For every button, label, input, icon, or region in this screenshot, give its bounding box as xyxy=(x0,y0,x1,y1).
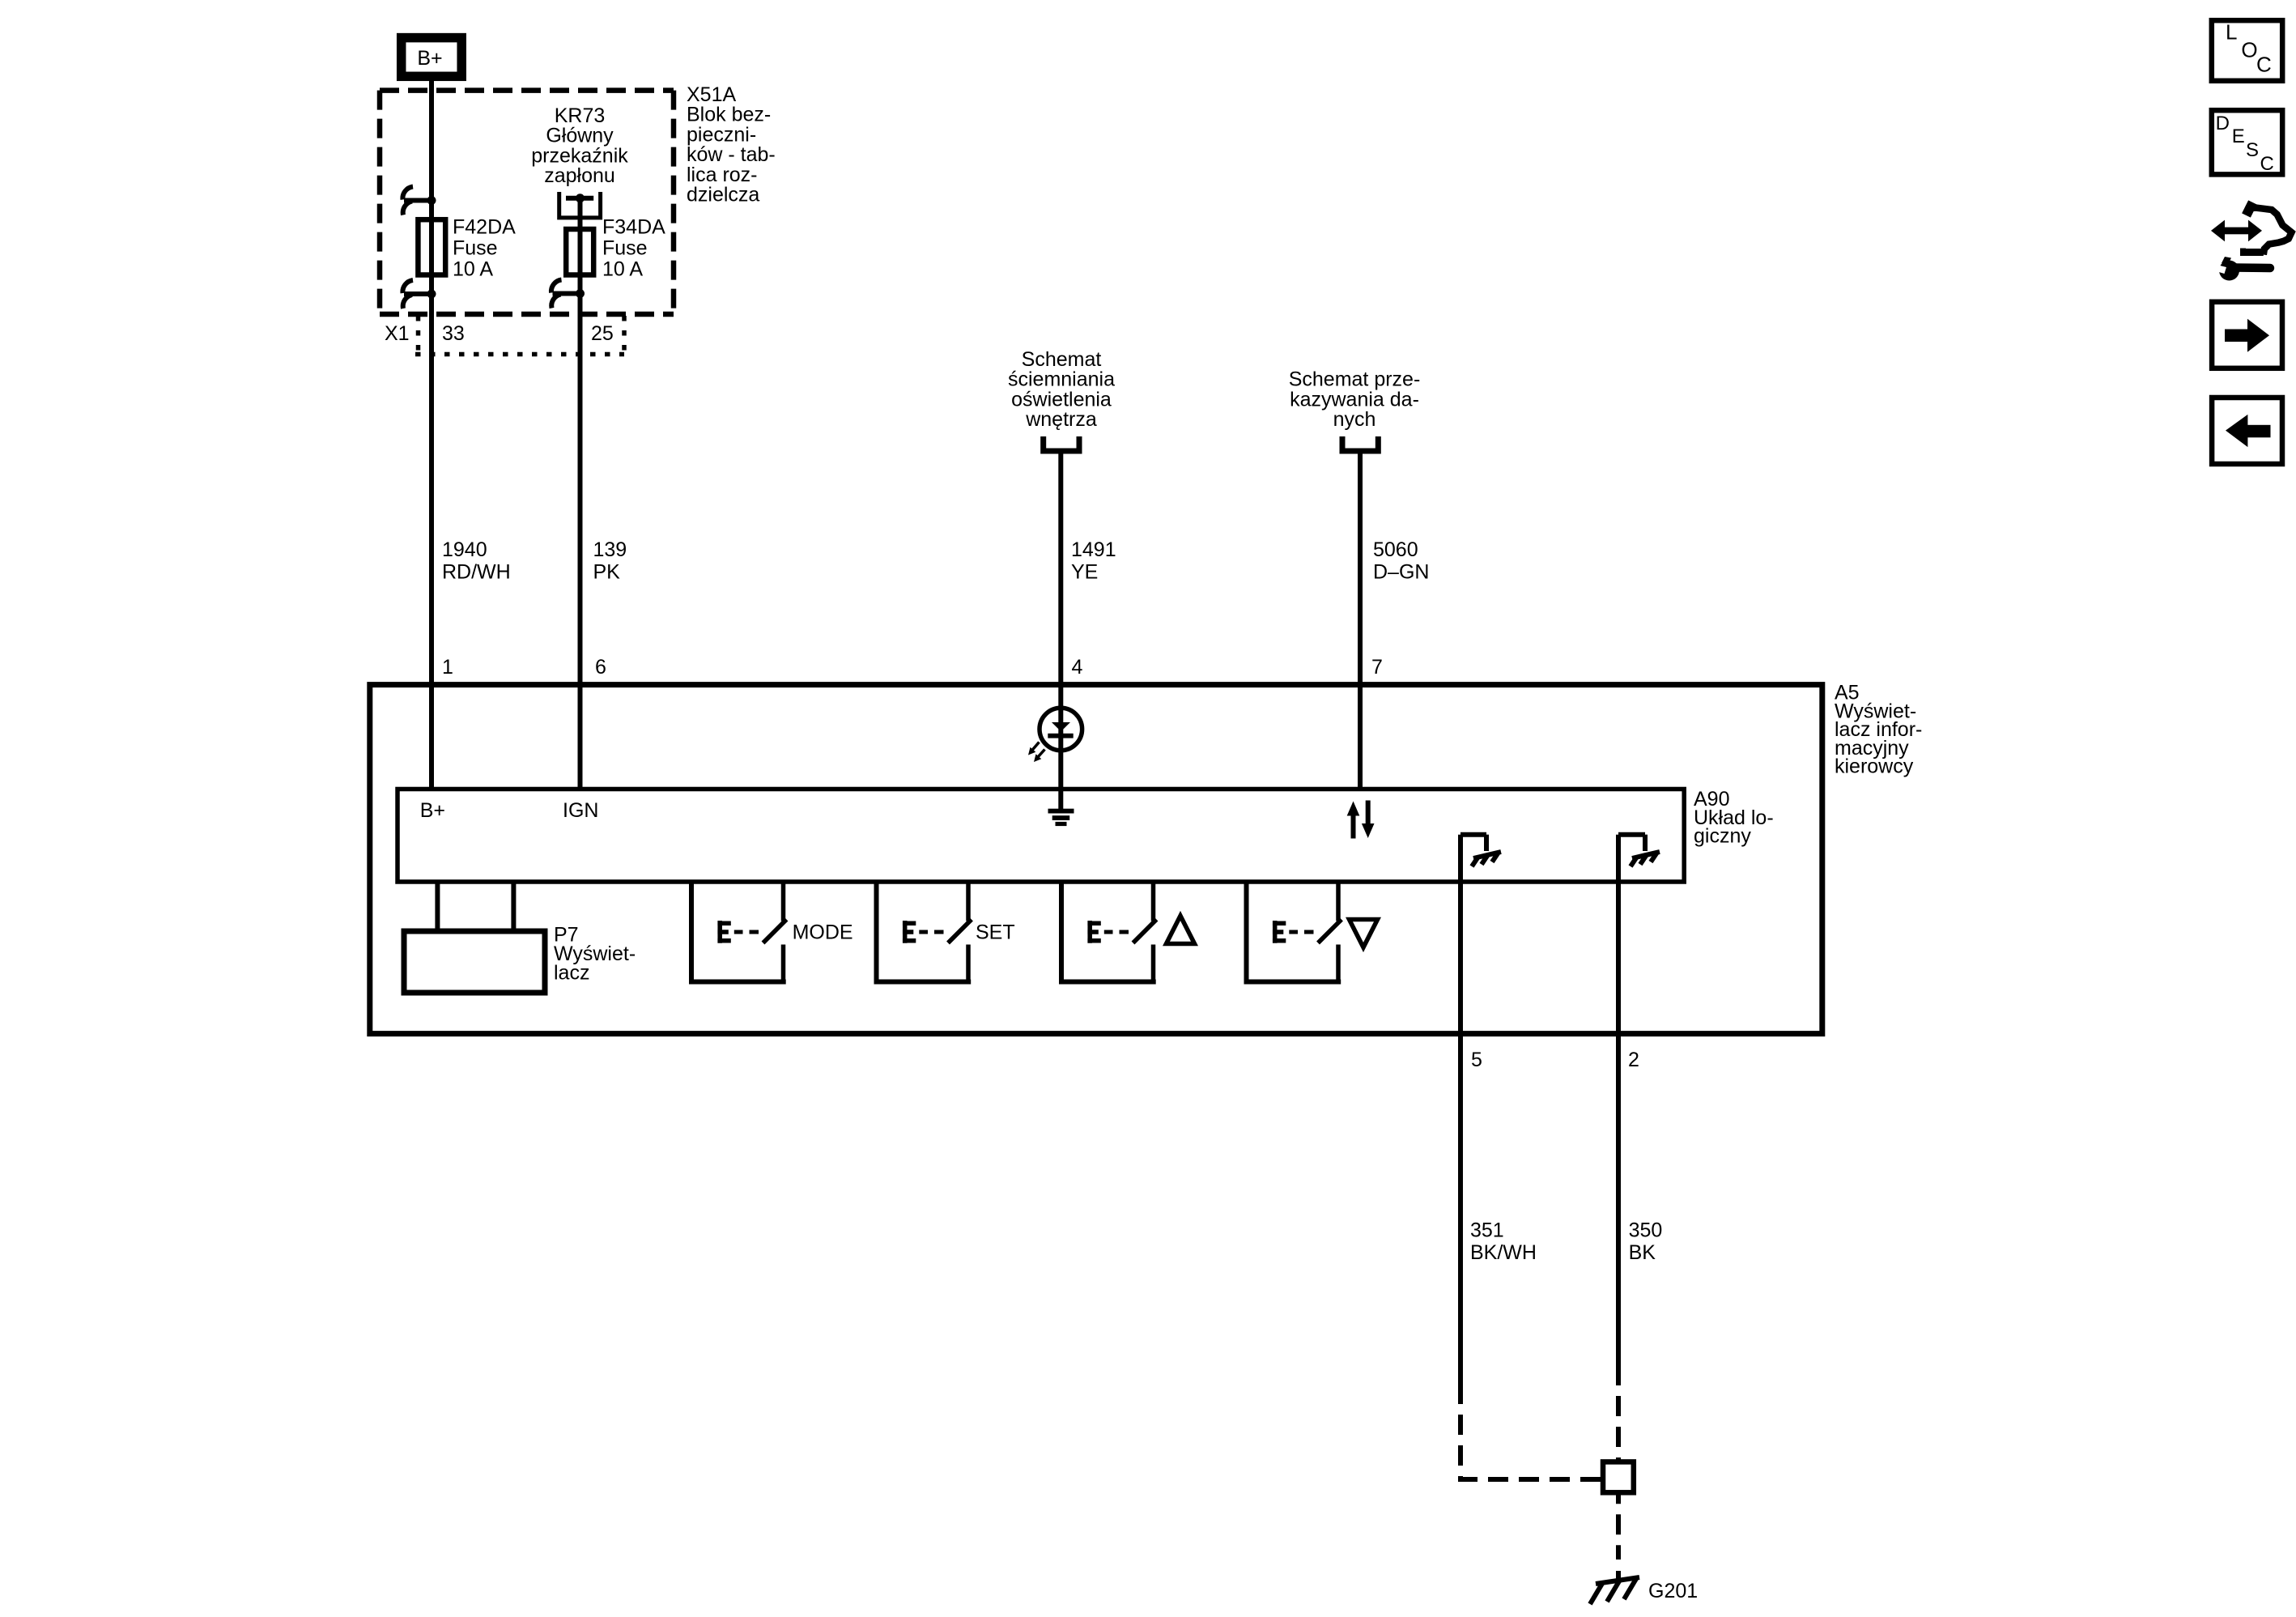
svg-text:F34DA: F34DA xyxy=(602,216,665,239)
logic block A90 box xyxy=(398,789,1684,883)
svg-text:C: C xyxy=(2256,53,2272,77)
svg-text:SET: SET xyxy=(976,921,1015,944)
svg-text:25: 25 xyxy=(591,322,614,345)
svg-text:Fuse: Fuse xyxy=(602,237,648,260)
ground symbol inside A90 (pin 2 circuit) xyxy=(1618,835,1660,866)
label F34DA Fuse 10 A xyxy=(602,216,665,281)
svg-text:X1: X1 xyxy=(385,322,410,345)
wire from B+ down into fuse block xyxy=(429,81,434,789)
svg-text:O: O xyxy=(2241,37,2257,62)
svg-text:Fuse: Fuse xyxy=(453,237,498,260)
label A90 Układ logiczny xyxy=(1694,788,1774,848)
svg-text:4: 4 xyxy=(1072,656,1083,679)
svg-text:1491: 1491 xyxy=(1071,538,1116,561)
ground symbol inside A90 (pin 5 circuit) xyxy=(1461,835,1501,866)
svg-text:E: E xyxy=(2232,126,2245,147)
label X51A Blok bezpieczników - tablica rozdzielcza xyxy=(687,83,776,206)
svg-text:D: D xyxy=(2216,113,2230,134)
svg-text:2: 2 xyxy=(1628,1049,1639,1071)
display P7 box xyxy=(404,931,545,993)
svg-text:5: 5 xyxy=(1471,1049,1482,1071)
wire 5 dashed part to splice xyxy=(1461,1404,1601,1479)
svg-text:10 A: 10 A xyxy=(602,257,643,280)
svg-text:BK/WH: BK/WH xyxy=(1470,1241,1537,1264)
svg-text:1: 1 xyxy=(442,656,453,679)
sidebar icon DESC box xyxy=(2212,110,2282,175)
connector clip lower on wire 1 xyxy=(402,280,436,309)
wire 1 label 1940 RD/WH xyxy=(442,538,511,584)
svg-text:zapłonu: zapłonu xyxy=(544,164,615,187)
connector clip upper on wire 1 xyxy=(402,187,436,215)
svg-text:10 A: 10 A xyxy=(453,257,493,280)
label F42DA Fuse 10 A xyxy=(453,216,516,281)
splice junction square xyxy=(1603,1462,1634,1492)
sidebar icon back arrow box xyxy=(2212,398,2282,464)
svg-text:L: L xyxy=(2226,20,2237,45)
svg-text:MODE: MODE xyxy=(793,921,853,944)
down triangle symbol xyxy=(1350,920,1378,948)
switch DOWN xyxy=(1247,882,1342,982)
relay KR73 contact symbol xyxy=(559,192,601,218)
svg-text:YE: YE xyxy=(1071,561,1098,584)
svg-text:6: 6 xyxy=(595,656,606,679)
svg-text:7: 7 xyxy=(1371,656,1383,679)
wire 5 label 351 BK/WH xyxy=(1470,1219,1537,1265)
svg-text:PK: PK xyxy=(593,561,621,584)
switch SET xyxy=(877,882,972,982)
switch UP xyxy=(1061,882,1157,982)
svg-text:350: 350 xyxy=(1629,1219,1663,1242)
svg-text:giczny: giczny xyxy=(1694,825,1751,848)
sidebar repair icon: double arrow, fender outline and wrench xyxy=(2211,202,2292,281)
svg-text:B+: B+ xyxy=(417,47,442,70)
svg-text:lacz: lacz xyxy=(554,962,589,985)
svg-text:nych: nych xyxy=(1333,408,1376,431)
connector clip on wire 2 xyxy=(551,280,585,309)
svg-text:BK: BK xyxy=(1629,1241,1656,1264)
label P7 Wyświetlacz xyxy=(554,924,636,985)
svg-text:S: S xyxy=(2246,139,2259,161)
wire 2 label 139 PK xyxy=(593,538,627,584)
svg-text:351: 351 xyxy=(1470,1219,1504,1242)
wire from relay KR73 down (IGN feed) xyxy=(578,198,583,789)
off-page reference: Schemat ściemniania oświetlenia wnętrza xyxy=(1008,348,1115,431)
fuse F34DA xyxy=(566,229,593,275)
off-page connector bracket (data) xyxy=(1342,436,1378,451)
power symbol B+ box xyxy=(402,38,462,77)
data up/down arrows inside A90 xyxy=(1347,801,1375,839)
up triangle symbol xyxy=(1167,916,1195,944)
svg-text:kierowcy: kierowcy xyxy=(1835,755,1914,778)
svg-text:33: 33 xyxy=(442,322,465,345)
switch MODE xyxy=(691,882,787,982)
wires from A90 to display P7 xyxy=(435,882,440,933)
svg-text:dzielcza: dzielcza xyxy=(687,184,759,206)
fuse F42DA xyxy=(418,219,445,274)
label KR73 Główny przekaźnik zapłonu xyxy=(531,104,628,187)
svg-text:wnętrza: wnętrza xyxy=(1025,408,1097,431)
wire 2 label 350 BK xyxy=(1629,1219,1663,1265)
svg-text:1940: 1940 xyxy=(442,538,487,561)
sidebar icon forward arrow box xyxy=(2212,302,2282,368)
wire 2 dashed part to splice xyxy=(1616,1385,1621,1462)
photodiode / backlight LED on wire 4 xyxy=(1028,708,1082,762)
svg-text:RD/WH: RD/WH xyxy=(442,561,511,584)
label A5 Wyświetlacz informacyjny kierowcy xyxy=(1835,682,1922,778)
ground G201 chassis symbol xyxy=(1590,1571,1639,1604)
wire 4 1491 YE xyxy=(1058,453,1063,735)
svg-text:G201: G201 xyxy=(1648,1580,1698,1602)
fuse block X51A dashed box xyxy=(380,91,674,314)
svg-text:5060: 5060 xyxy=(1373,538,1418,561)
wire from LED down to signal ground xyxy=(1058,735,1063,810)
svg-text:139: 139 xyxy=(593,538,627,561)
svg-text:IGN: IGN xyxy=(563,799,598,822)
wire 5 (351 BK/WH) solid part xyxy=(1458,835,1463,1404)
svg-text:D–GN: D–GN xyxy=(1373,561,1429,584)
svg-text:F42DA: F42DA xyxy=(453,216,516,239)
signal ground under LED xyxy=(1048,809,1074,826)
wire 7 5060 D-GN xyxy=(1358,453,1363,789)
wire 2 (350 BK) solid part xyxy=(1616,835,1621,1385)
off-page connector bracket (dimming) xyxy=(1044,436,1079,451)
dashed wire from splice to ground G201 xyxy=(1616,1492,1621,1560)
connector X1 dotted box xyxy=(415,316,624,355)
off-page reference: Schemat przekazywania danych xyxy=(1289,368,1421,431)
svg-text:B+: B+ xyxy=(420,799,445,822)
svg-text:C: C xyxy=(2260,153,2274,175)
module A5 outer box xyxy=(370,685,1822,1034)
sidebar icon LOC box xyxy=(2212,20,2282,81)
